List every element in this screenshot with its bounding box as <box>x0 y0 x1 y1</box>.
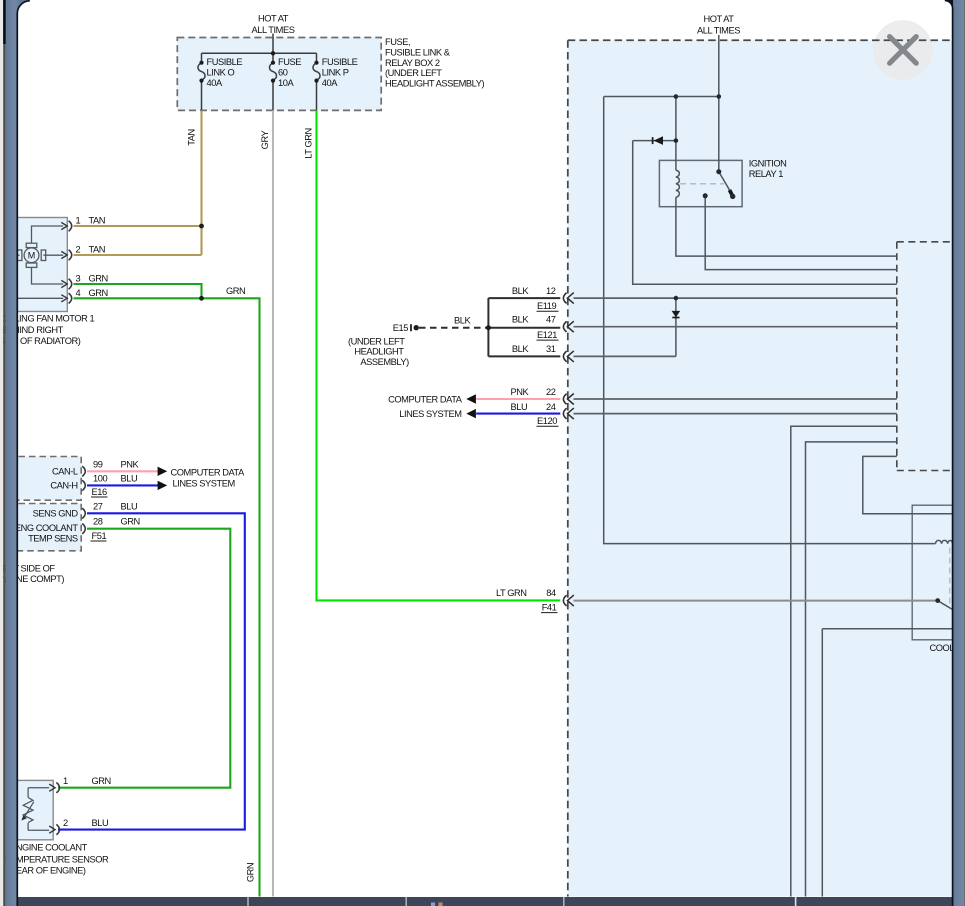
svg-text:HEADLIGHT: HEADLIGHT <box>354 347 404 357</box>
svg-text:(UNDER LEFT: (UNDER LEFT <box>348 336 405 346</box>
svg-text:LINES SYSTEM: LINES SYSTEM <box>399 409 461 419</box>
svg-text:E121: E121 <box>537 330 557 340</box>
svg-text:BLK: BLK <box>454 316 471 326</box>
svg-text:27: 27 <box>93 501 103 511</box>
svg-text:1: 1 <box>63 776 68 786</box>
svg-text:F41: F41 <box>542 602 557 612</box>
svg-text:47: 47 <box>546 314 556 324</box>
svg-text:HEADLIGHT ASSEMBLY): HEADLIGHT ASSEMBLY) <box>385 79 484 89</box>
svg-text:GRN: GRN <box>226 286 245 296</box>
svg-text:(UNDER LEFT: (UNDER LEFT <box>385 68 442 78</box>
svg-text:GRN: GRN <box>92 776 111 786</box>
svg-text:12: 12 <box>546 286 556 296</box>
svg-text:GRN: GRN <box>245 863 255 882</box>
svg-text:ALL TIMES: ALL TIMES <box>252 25 295 35</box>
svg-text:LINK O: LINK O <box>207 68 235 78</box>
svg-text:4: 4 <box>76 288 81 298</box>
svg-text:ENGINE COOLANT: ENGINE COOLANT <box>10 843 88 853</box>
svg-text:24: 24 <box>546 402 556 412</box>
svg-text:40A: 40A <box>322 78 338 88</box>
svg-text:2: 2 <box>63 818 68 828</box>
svg-text:99: 99 <box>93 459 103 469</box>
svg-text:TEMP SENS: TEMP SENS <box>28 533 78 543</box>
svg-text:10A: 10A <box>278 78 294 88</box>
svg-text:E15: E15 <box>393 323 408 333</box>
svg-text:CAN-L: CAN-L <box>52 466 78 476</box>
svg-text:LINK P: LINK P <box>322 68 349 78</box>
svg-text:BLU: BLU <box>121 473 138 483</box>
svg-text:28: 28 <box>93 517 103 527</box>
svg-text:GRN: GRN <box>89 273 108 283</box>
svg-text:BLU: BLU <box>121 501 138 511</box>
svg-text:HOT AT: HOT AT <box>703 14 734 24</box>
svg-text:LINES SYSTEM: LINES SYSTEM <box>173 478 235 488</box>
svg-text:ENG COOLANT: ENG COOLANT <box>15 523 78 533</box>
svg-text:31: 31 <box>546 344 556 354</box>
svg-text:GRN: GRN <box>89 288 108 298</box>
svg-text:1: 1 <box>76 215 81 225</box>
svg-text:TAN: TAN <box>186 129 196 146</box>
svg-text:E16: E16 <box>92 487 107 497</box>
svg-text:(REAR OF ENGINE): (REAR OF ENGINE) <box>7 866 86 876</box>
svg-text:E119: E119 <box>537 301 557 311</box>
svg-text:GRN: GRN <box>121 517 140 527</box>
svg-text:BLK: BLK <box>512 286 529 296</box>
svg-text:COMPUTER DATA: COMPUTER DATA <box>171 467 246 477</box>
svg-text:FUSE,: FUSE, <box>385 37 410 47</box>
svg-text:BLK: BLK <box>512 314 529 324</box>
svg-text:60: 60 <box>278 68 288 78</box>
svg-text:100: 100 <box>93 473 107 483</box>
svg-text:GRY: GRY <box>260 130 270 149</box>
svg-text:IGNITION: IGNITION <box>749 159 787 169</box>
svg-text:LT GRN: LT GRN <box>303 128 313 159</box>
svg-text:COMPUTER DATA: COMPUTER DATA <box>388 394 463 404</box>
svg-text:BLU: BLU <box>511 402 528 412</box>
svg-text:3: 3 <box>76 273 81 283</box>
svg-text:FUSIBLE: FUSIBLE <box>207 57 243 67</box>
svg-text:E120: E120 <box>537 416 557 426</box>
svg-text:ALL TIMES: ALL TIMES <box>697 25 740 35</box>
svg-text:CAN-H: CAN-H <box>50 480 77 490</box>
svg-text:PNK: PNK <box>511 387 530 397</box>
svg-text:M: M <box>28 251 36 261</box>
svg-text:F51: F51 <box>92 531 107 541</box>
svg-text:BLK: BLK <box>512 344 529 354</box>
svg-text:BLU: BLU <box>92 818 109 828</box>
svg-text:LT GRN: LT GRN <box>496 588 527 598</box>
svg-text:TAN: TAN <box>89 215 106 225</box>
svg-text:TAN: TAN <box>89 244 106 254</box>
svg-text:84: 84 <box>546 588 556 598</box>
svg-text:ASSEMBLY): ASSEMBLY) <box>360 357 409 367</box>
svg-text:FUSIBLE LINK &: FUSIBLE LINK & <box>385 47 451 57</box>
svg-text:22: 22 <box>546 387 556 397</box>
svg-text:RELAY 1: RELAY 1 <box>749 169 784 179</box>
svg-text:PNK: PNK <box>121 459 140 469</box>
svg-text:2: 2 <box>76 244 81 254</box>
svg-text:HOT AT: HOT AT <box>258 14 289 24</box>
svg-text:FUSE: FUSE <box>278 57 301 67</box>
svg-text:FUSIBLE: FUSIBLE <box>322 57 358 67</box>
svg-text:SENS GND: SENS GND <box>33 509 79 519</box>
svg-text:TEMPERATURE SENSOR: TEMPERATURE SENSOR <box>5 854 109 864</box>
svg-text:RELAY BOX 2: RELAY BOX 2 <box>385 58 440 68</box>
svg-text:COOL: COOL <box>930 643 955 653</box>
svg-text:40A: 40A <box>207 78 223 88</box>
